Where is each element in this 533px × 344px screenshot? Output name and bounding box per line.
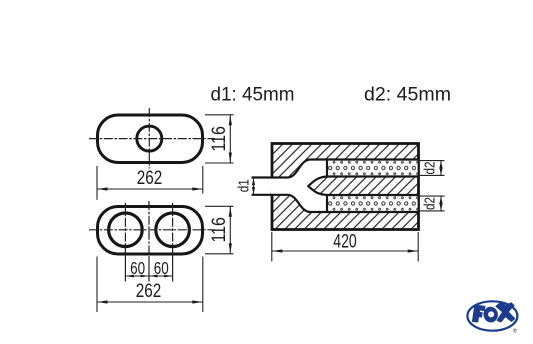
bottom view: oval body outline <box>98 207 203 255</box>
bottom view: dimension 60 left <box>125 258 149 278</box>
section view: dimension d2 upper <box>419 161 445 176</box>
svg-text:262: 262 <box>137 167 163 189</box>
svg-text:d2: d2 <box>422 162 439 175</box>
svg-text:d1: d1 <box>236 179 253 192</box>
section view: white Y-pipe bore <box>269 160 418 213</box>
section view: hatched muffler body <box>272 144 419 230</box>
svg-text:®: ® <box>513 328 517 335</box>
svg-text:d2: d2 <box>422 197 439 210</box>
section view: dimension d1 <box>236 178 256 195</box>
section view: perforated lower pipe section <box>328 196 418 211</box>
svg-text:420: 420 <box>333 231 357 253</box>
svg-text:262: 262 <box>136 280 162 302</box>
FOX logo letter O <box>482 306 498 324</box>
bottom view: middle vertical centerline <box>148 201 150 282</box>
top view: oval body outline <box>98 115 203 163</box>
section view: upper pipe perforation divider <box>326 160 328 177</box>
svg-text:60: 60 <box>130 258 145 278</box>
svg-text:116: 116 <box>208 126 230 152</box>
section view: lower pipe perforation divider <box>326 195 328 212</box>
top view: inlet circle d1 <box>137 126 162 151</box>
label d2: 45mm <box>364 85 451 106</box>
section view: Y crotch inner walls <box>308 177 419 196</box>
bottom view: left pipe circle <box>109 213 143 247</box>
FOX logo registered mark <box>513 328 517 335</box>
bottom view: right pipe circle <box>156 213 190 247</box>
bottom view: dimension 262 <box>97 257 203 313</box>
FOX logo letter F <box>473 305 485 322</box>
section view: dimension 420 <box>272 231 418 262</box>
top view: dimension 116 <box>205 115 234 163</box>
svg-text:116: 116 <box>208 217 230 243</box>
FOX logo ellipse <box>467 301 517 330</box>
section view: upper pipe outer wall <box>252 160 420 178</box>
section view: perforated upper pipe section <box>328 161 418 176</box>
top view: horizontal centerline <box>89 138 215 140</box>
bottom view: left circle vertical centerline <box>124 203 126 282</box>
svg-text:d2: 45mm: d2: 45mm <box>364 85 451 106</box>
top view: dimension 262 <box>97 166 203 200</box>
svg-text:60: 60 <box>154 258 169 278</box>
FOX logo letter X <box>496 302 514 322</box>
label d1: 45mm <box>211 85 295 106</box>
bottom view: horizontal centerline <box>89 229 215 231</box>
bottom view: right circle vertical centerline <box>172 203 174 282</box>
bottom view: dimension 60 right <box>149 258 173 278</box>
bottom view: dimension 116 <box>205 206 234 254</box>
section view: dimension d2 lower <box>419 196 445 211</box>
top view: vertical centerline <box>148 108 150 169</box>
section view: lower pipe outer wall <box>252 195 420 212</box>
svg-text:d1: 45mm: d1: 45mm <box>211 85 295 106</box>
